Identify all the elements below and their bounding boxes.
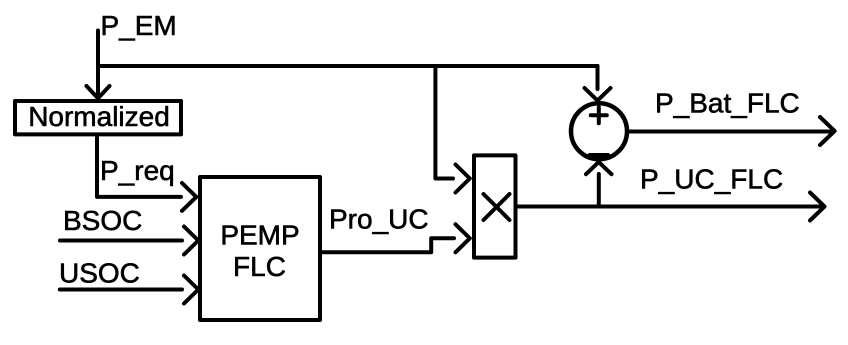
label PEMP FLC (220, 220, 299, 283)
wire Normalized output to PEMP FLC input 1 (P_req, with arrowhead) (97, 136, 196, 211)
svg-text:BSOC: BSOC (63, 205, 142, 236)
svg-text:USOC: USOC (59, 258, 140, 289)
svg-text:PEMP: PEMP (220, 220, 299, 251)
svg-text:P_req: P_req (100, 155, 175, 186)
wire BSOC input to PEMP FLC input 2 (with arrowhead) (60, 227, 198, 255)
svg-text:P_UC_FLC: P_UC_FLC (640, 164, 783, 195)
svg-text:P_EM: P_EM (101, 10, 177, 41)
summer plus sign (591, 107, 607, 123)
wire P_EM branch down to multiplier upper input (with arrowhead) (435, 66, 469, 193)
wire multiplier output to P_UC_FLC (with arrowhead) (518, 193, 825, 221)
wire branch from P_UC line up to summer minus input (with arrowhead) (586, 162, 612, 207)
svg-text:FLC: FLC (233, 251, 286, 282)
wire USOC input to PEMP FLC input 3 (with arrowhead) (60, 276, 199, 304)
wire top bus elbow down into summer plus input (with arrowhead) (585, 66, 611, 101)
block PEMP FLC (200, 177, 320, 320)
svg-text:Normalized: Normalized (28, 101, 170, 132)
multiplication sign inside multiplier (484, 194, 510, 220)
wire top horizontal bus from P_EM branch to summer elbow (98, 64, 598, 68)
block multiplier X (474, 155, 516, 257)
summer (sum junction) circle (571, 103, 627, 159)
svg-text:P_Bat_FLC: P_Bat_FLC (655, 88, 800, 119)
wire PEMP FLC output (Pro_UC) to multiplier lower input (with arrowhead) (322, 224, 470, 252)
svg-text:Pro_UC: Pro_UC (329, 204, 429, 235)
block Normalized (15, 101, 181, 134)
summer minus sign (590, 153, 608, 158)
wire summer output to P_Bat_FLC (with arrowhead) (630, 117, 835, 145)
wire P_EM input stub down to Normalized block (with arrowhead) (87, 31, 110, 99)
